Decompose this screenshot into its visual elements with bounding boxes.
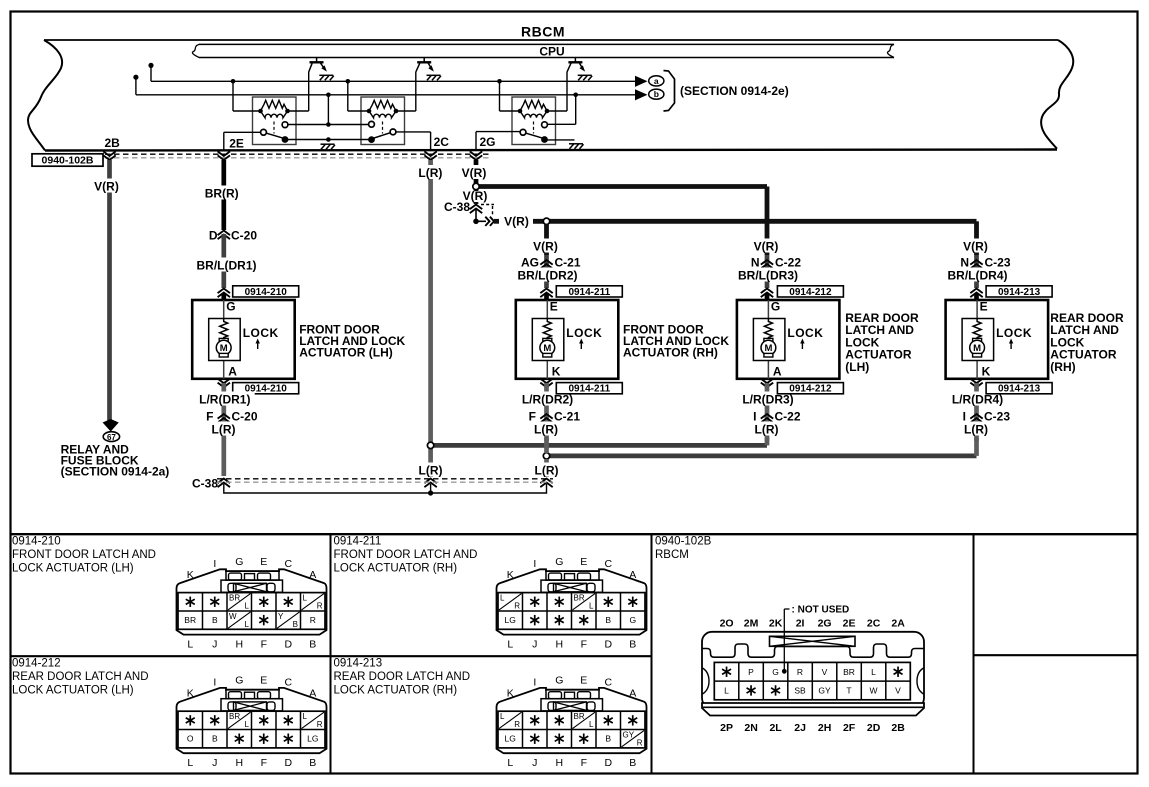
correction label AG C-21 xyxy=(505,257,539,269)
svg-text:CPU: CPU xyxy=(539,45,564,59)
svg-text:C-21: C-21 xyxy=(555,256,581,270)
svg-text:FRONT DOOR LATCH AND: FRONT DOOR LATCH AND xyxy=(12,549,156,561)
connector face 0914-210 xyxy=(177,569,327,634)
svg-text:2G: 2G xyxy=(818,618,832,630)
relay K2 coil xyxy=(369,111,396,118)
wire C-38 to junction xyxy=(475,209,477,221)
table divider row (right) xyxy=(974,654,1139,656)
bracket xyxy=(664,71,675,112)
wire K1 throw to pin 2E xyxy=(224,131,261,133)
svg-text:LOCK: LOCK xyxy=(996,326,1032,340)
svg-text:2D: 2D xyxy=(867,722,881,734)
svg-text:(RH): (RH) xyxy=(1050,360,1075,374)
inline connector C-21 (F) xyxy=(544,255,549,288)
svg-text:0914-213: 0914-213 xyxy=(998,287,1041,298)
svg-text:K: K xyxy=(982,365,991,379)
C-38 dashed line upper xyxy=(217,478,553,480)
svg-text:LOCK ACTUATOR (LH): LOCK ACTUATOR (LH) xyxy=(12,685,134,697)
connector C-38 chevron col2C xyxy=(424,479,436,488)
bus1 end stub and dot xyxy=(150,65,152,81)
svg-text:L(R): L(R) xyxy=(418,166,442,180)
svg-text:B: B xyxy=(293,620,298,629)
svg-text:GY: GY xyxy=(818,686,831,696)
connector ref 0914-210 (bottom) xyxy=(233,383,299,394)
svg-text:BR: BR xyxy=(574,712,585,721)
T3 collector wire xyxy=(566,72,568,111)
actuator front RH lock direction arrow xyxy=(580,342,582,349)
wire V(R) horizontal lower xyxy=(533,219,977,224)
ground at relay commons K1/K2 xyxy=(321,144,336,149)
actuator front RH resistor xyxy=(543,319,551,340)
inline connector C-20 (D) xyxy=(218,231,230,240)
relay K2 resistor xyxy=(369,100,396,111)
svg-text:M: M xyxy=(543,343,551,354)
svg-text:(SECTION 0914-2a): (SECTION 0914-2a) xyxy=(61,465,170,479)
0940-102B bottom skirt xyxy=(702,703,924,716)
wire V(R) drop front RH xyxy=(544,224,549,255)
T1 collector wire xyxy=(308,72,310,111)
svg-text:2C: 2C xyxy=(867,618,881,630)
wire V(R) from 2G xyxy=(474,160,479,184)
svg-text:(LH): (LH) xyxy=(845,360,869,374)
arrowhead to relay/fuse block xyxy=(103,419,119,432)
wire V(R) segment C-22 xyxy=(750,239,782,253)
relay K1 common contact xyxy=(282,136,289,143)
svg-text:C: C xyxy=(605,558,613,570)
bus2 end stub and dot xyxy=(135,77,137,95)
svg-text:L: L xyxy=(303,594,308,603)
relay K1 contact (upper) xyxy=(282,122,288,128)
connector face 0914-212 xyxy=(177,688,327,753)
wire BR(R) from 2E xyxy=(221,160,226,230)
connector ref 0914-213 (bottom) xyxy=(986,383,1052,394)
junction bus1/relay1 xyxy=(231,79,236,84)
svg-text:C-20: C-20 xyxy=(231,229,257,243)
actuator front LH motor M xyxy=(219,338,228,342)
svg-text:L: L xyxy=(187,639,193,651)
wire L/R(DR4) xyxy=(974,383,979,441)
connector 0940-102B label box xyxy=(32,154,103,166)
actuator front LH resistor xyxy=(220,319,228,340)
inline connector C-23 (N) xyxy=(974,255,979,288)
svg-text:H: H xyxy=(556,757,564,769)
wire L/R(DR1) xyxy=(221,383,226,476)
wire V(R) horizontal upper xyxy=(478,184,767,189)
connector chevrons above actuator xyxy=(970,289,982,298)
RBCM torn right edge xyxy=(1041,40,1073,149)
svg-text:K: K xyxy=(187,569,194,581)
svg-text:BR: BR xyxy=(229,594,240,603)
svg-text:G: G xyxy=(629,615,636,625)
svg-text:R: R xyxy=(797,667,803,677)
wire K3 throw to pin 2G xyxy=(476,131,520,133)
wire L/R(DR3) xyxy=(765,383,770,441)
0940-102B side guides xyxy=(703,668,710,694)
svg-text:C-22: C-22 xyxy=(775,410,801,424)
T2 collector wire xyxy=(415,72,417,111)
junction node contacts/bus2 xyxy=(327,95,329,125)
wire bus1 to relay K3 coil xyxy=(499,81,501,111)
svg-text:SB: SB xyxy=(794,686,806,696)
wire bottom bus B xyxy=(547,453,977,458)
svg-text:B: B xyxy=(605,615,611,625)
svg-text:D: D xyxy=(605,757,613,769)
wire rear LH L(R) to bus A xyxy=(765,438,770,445)
relay K3 coil xyxy=(520,111,547,118)
wire label L(R) near C-38 col2C xyxy=(415,463,447,477)
junction bus1/relay2 xyxy=(346,79,351,84)
svg-text:0914-211: 0914-211 xyxy=(334,536,382,548)
svg-text:: NOT USED: : NOT USED xyxy=(792,605,850,616)
svg-text:0940-102B: 0940-102B xyxy=(655,536,712,548)
actuator rear RH motor unit box xyxy=(962,319,994,361)
actuator rear LH resistor xyxy=(764,319,772,340)
svg-text:P: P xyxy=(748,667,754,677)
svg-text:2H: 2H xyxy=(818,722,831,734)
relay K3 switch arm xyxy=(523,132,545,138)
0914-213 pin grid xyxy=(498,711,645,748)
connector face 0914-213 xyxy=(497,688,647,753)
svg-text:BR: BR xyxy=(229,712,240,721)
svg-text:K: K xyxy=(507,688,514,700)
svg-text:0914-212: 0914-212 xyxy=(12,658,61,670)
inline connector C-22 (I) xyxy=(761,414,773,423)
svg-text:N: N xyxy=(751,256,760,270)
actuator rear RH lock direction arrow xyxy=(1010,342,1012,349)
svg-text:B: B xyxy=(212,615,218,625)
svg-text:R: R xyxy=(514,720,520,729)
svg-text:ACTUATOR (RH): ACTUATOR (RH) xyxy=(623,345,718,359)
svg-text:B: B xyxy=(605,734,611,744)
0940-102B crossed lock tab xyxy=(770,636,856,646)
actuator front LH internal wire xyxy=(223,300,225,379)
svg-text:b: b xyxy=(654,89,659,99)
svg-text:I: I xyxy=(213,558,216,570)
svg-text:2M: 2M xyxy=(744,618,759,630)
junction circle front RH drop xyxy=(543,218,549,224)
svg-text:B: B xyxy=(309,639,316,651)
svg-text:2P: 2P xyxy=(720,722,733,734)
chevrons below actuator LH front xyxy=(218,379,230,388)
svg-text:K: K xyxy=(552,365,561,379)
svg-text:a: a xyxy=(654,76,659,86)
wire bus1 to relay K2 coil xyxy=(347,81,349,111)
svg-text:W: W xyxy=(229,612,237,621)
svg-text:BR/L(DR1): BR/L(DR1) xyxy=(197,259,257,273)
svg-text:C-38: C-38 xyxy=(192,477,218,491)
svg-text:J: J xyxy=(212,757,217,769)
svg-text:LOCK: LOCK xyxy=(787,326,823,340)
svg-text:BR: BR xyxy=(184,615,196,625)
svg-text:0914-210: 0914-210 xyxy=(12,536,61,548)
svg-text:BR/L(DR3): BR/L(DR3) xyxy=(738,269,798,283)
connector C-38 chevron col front RH xyxy=(540,479,552,488)
svg-text:E: E xyxy=(550,300,558,314)
svg-text:T: T xyxy=(846,686,851,696)
svg-text:BR: BR xyxy=(843,667,855,677)
svg-text:R: R xyxy=(310,615,316,625)
0940-102B pin grid xyxy=(714,662,910,699)
actuator rear LH lock direction arrow xyxy=(801,342,803,349)
0940-102B collar profile xyxy=(702,644,924,657)
connector ref 0914-210 (top) xyxy=(233,286,299,297)
relay K3 actuation dashed link xyxy=(533,122,535,134)
svg-text:0914-211: 0914-211 xyxy=(568,384,610,395)
svg-text:0914-213: 0914-213 xyxy=(334,658,383,670)
RBCM bottom edge xyxy=(45,150,1057,151)
connector ref 0914-212 (top) xyxy=(777,286,843,297)
actuator rear LH motor M xyxy=(764,338,773,342)
connector ref 0914-212 (bottom) xyxy=(777,383,843,394)
0914-213 latch detail xyxy=(546,690,599,699)
svg-text:J: J xyxy=(212,639,217,651)
svg-text:V(R): V(R) xyxy=(94,180,119,194)
svg-text:REAR DOOR LATCH AND: REAR DOOR LATCH AND xyxy=(334,671,471,683)
svg-text:R: R xyxy=(317,720,323,729)
svg-text:LOCK: LOCK xyxy=(566,326,602,340)
svg-text:2E: 2E xyxy=(229,137,244,151)
wire K1 common to K2 common xyxy=(288,139,369,141)
relay K2 contact (upper) xyxy=(369,121,375,127)
C-38 joint thin wire xyxy=(224,484,547,493)
relay K3 xyxy=(512,97,556,145)
svg-text:C: C xyxy=(285,677,293,689)
svg-text:E: E xyxy=(260,675,267,687)
relay K1 switch arm xyxy=(264,132,286,138)
svg-text:L(R): L(R) xyxy=(755,423,779,437)
svg-text:BR: BR xyxy=(574,594,585,603)
svg-text:H: H xyxy=(556,639,564,651)
svg-text:L(R): L(R) xyxy=(419,464,443,478)
wire relay K3 coil to T3 xyxy=(547,110,567,112)
svg-text:I: I xyxy=(963,410,966,424)
junction bus2/contact T3 xyxy=(573,93,578,98)
svg-text:2N: 2N xyxy=(744,722,757,734)
inline connector C-23 (I) xyxy=(970,414,982,423)
svg-text:67: 67 xyxy=(107,433,116,442)
svg-text:2K: 2K xyxy=(769,618,783,630)
svg-text:L: L xyxy=(500,594,505,603)
svg-text:G: G xyxy=(226,300,235,314)
svg-text:2J: 2J xyxy=(794,722,806,734)
svg-text:FRONT DOOR LATCH AND: FRONT DOOR LATCH AND xyxy=(334,549,478,561)
junction dot xyxy=(473,219,479,225)
inline connector C-22 (N) xyxy=(765,255,770,288)
svg-text:LOCK ACTUATOR (RH): LOCK ACTUATOR (RH) xyxy=(334,685,458,697)
wire L(R) from 2C xyxy=(428,160,433,442)
wire relay K1 coil to T1 xyxy=(288,110,309,112)
wire L(R) xyxy=(751,422,783,436)
svg-text:V: V xyxy=(895,686,901,696)
svg-text:A: A xyxy=(629,569,636,581)
svg-text:F: F xyxy=(581,757,587,769)
connector face 0940-102B xyxy=(702,632,924,708)
svg-text:E: E xyxy=(980,300,988,314)
svg-text:2C: 2C xyxy=(434,135,450,149)
wire L(R) xyxy=(530,422,562,436)
svg-text:M: M xyxy=(220,343,228,354)
wire V(R) drop to rear LH xyxy=(765,187,770,256)
svg-text:D: D xyxy=(285,757,293,769)
relay K3 contact (upper) xyxy=(542,122,548,128)
svg-text:Y: Y xyxy=(278,612,284,621)
table vertical 3 xyxy=(973,534,975,773)
svg-text:A: A xyxy=(228,365,237,379)
chevrons below actuator xyxy=(540,379,552,388)
svg-text:C-22: C-22 xyxy=(775,256,801,270)
svg-text:AG: AG xyxy=(521,256,539,270)
svg-text:LOCK: LOCK xyxy=(243,326,279,340)
relay K1 contact (throw) xyxy=(261,129,267,135)
door lock actuator rear RH xyxy=(946,300,1049,379)
svg-text:V(R): V(R) xyxy=(504,215,529,229)
svg-text:2B: 2B xyxy=(891,722,905,734)
svg-text:F: F xyxy=(261,757,267,769)
wire K3 common to ground xyxy=(547,139,575,141)
relay K2 xyxy=(361,97,405,145)
svg-text:0914-212: 0914-212 xyxy=(789,384,832,395)
svg-text:V(R): V(R) xyxy=(462,166,487,180)
table divider row (left) xyxy=(10,655,652,657)
wire BR/L(DR4) xyxy=(944,268,1011,282)
svg-text:D: D xyxy=(285,639,293,651)
svg-text:C-20: C-20 xyxy=(232,410,258,424)
svg-text:ACTUATOR (LH): ACTUATOR (LH) xyxy=(299,345,393,359)
relay K2 contact (throw) xyxy=(390,129,396,135)
svg-text:L: L xyxy=(507,639,513,651)
svg-text:M: M xyxy=(764,343,772,354)
svg-text:C-23: C-23 xyxy=(985,256,1011,270)
svg-text:M: M xyxy=(973,343,981,354)
0914-210 latch detail xyxy=(226,571,279,580)
connector chevrons above actuator LH front xyxy=(218,289,230,298)
svg-text:J: J xyxy=(532,639,537,651)
actuator rear RH resistor xyxy=(973,319,981,340)
svg-text:L: L xyxy=(589,602,594,611)
svg-text:L: L xyxy=(303,712,308,721)
CPU box xyxy=(199,43,894,45)
wire L(R) xyxy=(960,422,992,436)
svg-text:L: L xyxy=(589,720,594,729)
bus wire 1 xyxy=(151,80,635,82)
connector ref 0914-211 (top) xyxy=(556,286,622,297)
svg-text:L: L xyxy=(245,602,250,611)
C-38 mating stub (dashed) xyxy=(481,204,494,206)
svg-text:0914-213: 0914-213 xyxy=(998,384,1041,395)
svg-text:A: A xyxy=(309,569,316,581)
wire K2 throw to pin 2C xyxy=(396,131,431,133)
connector dashed line upper xyxy=(105,153,490,155)
NOT USED leader xyxy=(783,609,785,671)
svg-text:D: D xyxy=(605,639,613,651)
svg-text:A: A xyxy=(773,365,782,379)
svg-text:L: L xyxy=(871,667,876,677)
svg-text:F: F xyxy=(581,639,587,651)
0914-212 latch detail xyxy=(226,690,279,699)
chevrons below actuator xyxy=(761,379,773,388)
table vertical 1 xyxy=(330,534,332,773)
svg-text:B: B xyxy=(212,734,218,744)
svg-text:I: I xyxy=(533,558,536,570)
actuator rear LH internal wire xyxy=(767,300,769,379)
wire label L(R) near C-38 front RH xyxy=(531,463,563,477)
svg-text:F: F xyxy=(206,410,213,424)
svg-text:0914-211: 0914-211 xyxy=(568,287,610,298)
terminal circle 67 xyxy=(103,432,119,442)
actuator rear RH motor M xyxy=(973,338,982,342)
svg-text:L(R): L(R) xyxy=(964,423,988,437)
wire rear RH L(R) to bus B xyxy=(974,438,979,456)
svg-text:E: E xyxy=(260,556,267,568)
svg-text:LG: LG xyxy=(307,734,318,744)
relay K2 switch arm xyxy=(372,132,394,139)
svg-text:V(R): V(R) xyxy=(963,240,988,254)
svg-text:R: R xyxy=(514,602,520,611)
svg-text:N: N xyxy=(960,256,969,270)
svg-text:G: G xyxy=(555,556,563,568)
svg-text:K: K xyxy=(187,688,194,700)
svg-text:H: H xyxy=(236,639,244,651)
svg-text:G: G xyxy=(235,556,243,568)
svg-text:G: G xyxy=(772,667,779,677)
svg-text:C: C xyxy=(605,677,613,689)
svg-text:C: C xyxy=(285,558,293,570)
svg-text:L(R): L(R) xyxy=(535,464,559,478)
connector face 0914-211 xyxy=(497,569,647,634)
transistor T2 xyxy=(423,58,425,63)
transistor T3 xyxy=(574,58,576,63)
door lock actuator front RH xyxy=(516,300,619,379)
svg-text:LOCK ACTUATOR (RH): LOCK ACTUATOR (RH) xyxy=(334,563,458,575)
table vertical 2 xyxy=(651,534,653,773)
svg-text:B: B xyxy=(629,757,636,769)
svg-text:D: D xyxy=(209,229,218,243)
svg-text:I: I xyxy=(753,410,756,424)
svg-text:2I: 2I xyxy=(796,618,805,630)
svg-text:GY: GY xyxy=(623,731,635,740)
svg-text:B: B xyxy=(309,757,316,769)
actuator front LH lock direction arrow xyxy=(257,342,259,349)
wire L/R(DR2) xyxy=(544,383,549,441)
ground at transistor T3 xyxy=(578,75,593,80)
connector chevrons above actuator xyxy=(540,289,552,298)
wire K1 upper contact to K2 upper contact (node) xyxy=(288,124,369,126)
wire bus1 to relay K1 coil xyxy=(232,81,234,111)
svg-text:J: J xyxy=(532,757,537,769)
connector ref 0914-211 (bottom) xyxy=(556,383,622,394)
svg-text:LG: LG xyxy=(505,734,516,744)
transistor T1 xyxy=(316,58,318,63)
svg-text:L: L xyxy=(187,757,193,769)
svg-text:2E: 2E xyxy=(843,618,856,630)
svg-text:RBCM: RBCM xyxy=(655,549,689,561)
svg-text:C-38: C-38 xyxy=(444,200,470,214)
svg-text:A: A xyxy=(309,688,316,700)
RBCM top edge xyxy=(44,39,1058,41)
svg-text:L: L xyxy=(245,620,250,629)
svg-text:L: L xyxy=(500,712,505,721)
svg-text:(SECTION 0914-2e): (SECTION 0914-2e) xyxy=(680,84,789,98)
svg-text:0914-212: 0914-212 xyxy=(789,287,832,298)
wire V(R) drop to rear RH xyxy=(974,221,979,255)
junction bus2/contact T1 xyxy=(326,93,331,98)
door lock actuator rear LH xyxy=(737,300,840,379)
svg-text:BR/L(DR2): BR/L(DR2) xyxy=(518,269,578,283)
connector dashed line lower xyxy=(105,157,490,159)
0914-211 latch detail xyxy=(546,571,599,580)
svg-text:L(R): L(R) xyxy=(212,423,236,437)
relay K1 xyxy=(253,97,297,145)
